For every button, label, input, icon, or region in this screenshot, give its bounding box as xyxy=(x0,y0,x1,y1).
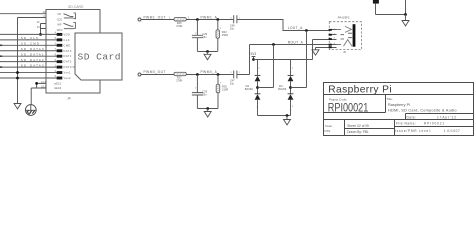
svg-text:33n: 33n xyxy=(202,35,207,39)
card-detect switch SW-A xyxy=(64,13,76,19)
svg-text:1.0/1007: 1.0/1007 xyxy=(444,129,461,133)
svg-text:BAV99: BAV99 xyxy=(245,87,253,91)
svg-text:CD2: CD2 xyxy=(57,17,63,21)
wire PWM1_OUT to R26 xyxy=(141,19,174,21)
resistor R27 xyxy=(174,72,186,75)
wire SD_CMD xyxy=(0,44,57,46)
svg-text:HDMI, SD Card, Composite & Aud: HDMI, SD Card, Composite & Audio xyxy=(388,108,457,112)
svg-text:270R: 270R xyxy=(176,24,182,28)
wire diode bottom rail xyxy=(258,115,291,117)
svg-text:DAT0: DAT0 xyxy=(64,49,72,53)
wire top-right to ground xyxy=(376,0,406,15)
junction diode gnd xyxy=(286,114,289,117)
junction PWM0_A xyxy=(196,73,199,76)
wire PWM0_OUT to R27 xyxy=(141,74,174,76)
junction Vss1 xyxy=(16,71,19,74)
junction at R33 xyxy=(216,18,219,21)
svg-text:SD_CLK: SD_CLK xyxy=(21,36,39,40)
wire filter2 ground rail xyxy=(197,108,218,110)
svg-text:VDD: VDD xyxy=(64,32,71,36)
diode D2 (BAV99) top xyxy=(257,60,259,76)
wire SD_DAT#1 xyxy=(0,55,57,57)
wire ROUT_A xyxy=(250,45,330,75)
wire R27 to C47 xyxy=(186,74,233,76)
svg-text:SD_DATA2: SD_DATA2 xyxy=(21,58,45,62)
junction WP/VDD xyxy=(39,33,42,36)
svg-text:Raspberry Pi: Raspberry Pi xyxy=(388,103,410,107)
svg-text:33n: 33n xyxy=(202,92,207,96)
svg-text:PWM0_OUT: PWM0_OUT xyxy=(144,70,166,74)
svg-text:SD_DATA3: SD_DATA3 xyxy=(21,63,45,67)
wire D3 mid to LOUT xyxy=(291,31,307,88)
ground filter2 xyxy=(207,109,209,112)
svg-text:Raspberry Pi: Raspberry Pi xyxy=(328,84,392,95)
wire Vss1 xyxy=(0,72,57,74)
svg-text:LOUT_A: LOUT_A xyxy=(288,26,303,30)
wire mEC2 xyxy=(31,88,46,105)
wire LOUT_A xyxy=(249,20,329,31)
diode D2 (BAV99) bottom xyxy=(255,93,261,95)
svg-text:ROUT_A: ROUT_A xyxy=(288,41,304,45)
SD card connector J4 body xyxy=(46,10,100,94)
terminal PWM1_OUT xyxy=(138,18,141,21)
svg-text:mEC1: mEC1 xyxy=(54,81,62,85)
resistor R30 xyxy=(217,75,219,109)
svg-text:WP: WP xyxy=(57,23,61,27)
jack pin 2 xyxy=(329,34,336,36)
jack ring contact xyxy=(337,40,353,47)
jack pin 3 switch xyxy=(329,39,336,41)
svg-text:270R: 270R xyxy=(176,79,182,83)
title block frame xyxy=(324,83,474,136)
svg-text:J6: J6 xyxy=(343,50,346,54)
svg-text:Vss1: Vss1 xyxy=(64,71,72,75)
svg-text:PWM1_OUT: PWM1_OUT xyxy=(144,15,166,19)
junction filter2 gnd xyxy=(206,107,209,110)
svg-text:SD_DATA1: SD_DATA1 xyxy=(21,53,45,57)
chassis ground (mechanical) xyxy=(25,105,36,116)
write-protect switch SW-B xyxy=(64,23,76,29)
wire filter1 ground rail xyxy=(197,51,217,53)
pad DAT3 xyxy=(57,66,63,69)
svg-text:+3V3: +3V3 xyxy=(249,52,257,56)
ground jack xyxy=(315,48,317,50)
svg-text:PA-5/3F2: PA-5/3F2 xyxy=(338,15,350,19)
junction Vss2 xyxy=(16,77,19,80)
capacitor C33 xyxy=(192,75,203,109)
wire pin12 WP stub xyxy=(41,24,47,35)
terminal PWM0_OUT xyxy=(138,73,141,76)
svg-text:10u: 10u xyxy=(230,27,235,31)
pad VSS2 xyxy=(57,77,63,80)
ground top-right xyxy=(405,15,407,21)
jack pin 4 ring xyxy=(329,44,336,46)
svg-text:150R: 150R xyxy=(222,88,228,92)
svg-text:CLK: CLK xyxy=(64,38,70,42)
svg-text:Sheet: 02 of 05: Sheet: 02 of 05 xyxy=(347,124,369,128)
diode D3 (BAV99) top xyxy=(290,60,292,76)
pad DAT0 xyxy=(57,49,63,52)
wire mEC1 xyxy=(37,83,46,88)
jack sleeve bar xyxy=(353,24,356,47)
jack pin 1 tip xyxy=(329,29,336,31)
SD card shape xyxy=(75,33,122,80)
svg-text:Drawn By: PBL: Drawn By: PBL xyxy=(347,130,369,134)
svg-text:Date:: Date: xyxy=(407,116,417,120)
svg-text:File Name:: File Name: xyxy=(396,122,416,126)
svg-text:SD Card: SD Card xyxy=(78,52,121,63)
svg-text:DAT1: DAT1 xyxy=(64,54,72,58)
svg-text:Scale:: Scale: xyxy=(325,124,333,128)
svg-text:SD-CARD: SD-CARD xyxy=(68,5,84,9)
pad VSS1 xyxy=(57,71,63,74)
svg-text:NTS: NTS xyxy=(324,129,330,133)
audio jack J6 dashed outline xyxy=(329,22,361,50)
svg-text:RPI00021: RPI00021 xyxy=(424,122,445,126)
wire R26 to C48 xyxy=(186,19,233,21)
pad top-right (cut component) xyxy=(373,0,379,4)
pad VDD xyxy=(57,33,63,36)
wire VDD xyxy=(0,33,57,35)
wire SD_DAT#0 xyxy=(0,50,57,52)
junction PWM1_A at C29 xyxy=(196,18,199,21)
junction ROUT_A xyxy=(272,43,275,46)
svg-text:14.1: 14.1 xyxy=(41,81,46,84)
resistor R26 xyxy=(174,18,186,21)
junction D3 mid xyxy=(289,86,292,89)
svg-text:SD_CMD: SD_CMD xyxy=(21,42,40,46)
svg-text:Title:: Title: xyxy=(386,97,393,101)
pad DAT2 xyxy=(57,60,63,63)
wire SD_DAT#2 xyxy=(0,61,57,63)
svg-text:17Apr'12: 17Apr'12 xyxy=(437,116,457,120)
wire D2 mid to ROUT xyxy=(258,45,274,88)
svg-text:15.2: 15.2 xyxy=(41,86,46,89)
junction LOUT_A xyxy=(305,29,308,32)
svg-text:DAT2: DAT2 xyxy=(64,60,72,64)
svg-text:RPI00021: RPI00021 xyxy=(328,101,369,115)
junction filter1 gnd xyxy=(206,50,209,53)
svg-text:150R: 150R xyxy=(222,33,228,37)
ground filter1 xyxy=(207,52,209,55)
jack switch contacts xyxy=(341,33,353,39)
resistor R33 xyxy=(217,20,219,52)
pad CMD xyxy=(57,44,63,47)
capacitor C47 xyxy=(234,71,250,79)
svg-text:mEC2: mEC2 xyxy=(54,86,62,90)
wire Vss2 xyxy=(0,77,57,79)
svg-text:WP2: WP2 xyxy=(57,28,63,32)
pad DAT1 xyxy=(57,55,63,58)
wire pin11 CD2 to ground rail xyxy=(18,18,47,102)
wire diode top rail xyxy=(254,40,330,60)
svg-text:CMD: CMD xyxy=(64,43,71,47)
wire SD_DAT#3 xyxy=(0,66,57,68)
capacitor C29 xyxy=(192,20,203,52)
off-page wire end ticks xyxy=(0,45,2,47)
ground diodes xyxy=(286,116,288,120)
jack tip contact xyxy=(337,26,352,32)
junction 3V3 rail xyxy=(252,58,255,61)
junction D2 mid xyxy=(256,86,259,89)
jack pin 5 sleeve xyxy=(316,47,337,49)
svg-text:Vss2: Vss2 xyxy=(64,76,72,80)
svg-text:SD_DATA0: SD_DATA0 xyxy=(21,47,45,51)
junction mEC xyxy=(35,82,38,85)
svg-text:PWM0_A: PWM0_A xyxy=(201,70,218,74)
svg-text:PWM1_A: PWM1_A xyxy=(201,15,218,19)
svg-text:10u: 10u xyxy=(230,81,235,85)
junction at R30 xyxy=(217,73,220,76)
ground GND (SD VSS) xyxy=(14,104,21,109)
svg-text:BAV99: BAV99 xyxy=(278,87,286,91)
svg-text:CD: CD xyxy=(57,12,61,16)
svg-text:J4: J4 xyxy=(67,97,71,101)
capacitor C48 xyxy=(234,15,249,23)
wire pin10 CD xyxy=(0,13,46,15)
svg-text:Issue/PMR Level:: Issue/PMR Level: xyxy=(395,129,432,133)
diode D3 (BAV99) bottom xyxy=(288,93,294,95)
wire SD_CLK xyxy=(0,39,57,41)
wire pin13 WP2 stub xyxy=(41,24,47,29)
pad CLK xyxy=(57,38,63,41)
junction top-right xyxy=(404,13,407,16)
